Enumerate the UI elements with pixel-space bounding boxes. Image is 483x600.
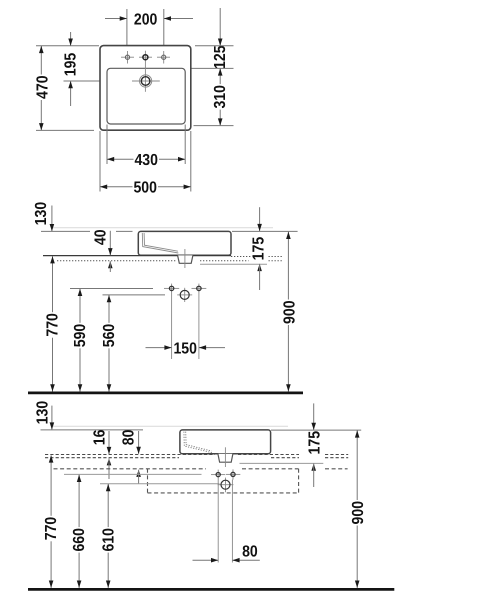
view3 dimension 130 line + arrow	[51, 406, 53, 430]
svg-text:200: 200	[134, 11, 158, 28]
view2 dimension label 770	[44, 312, 59, 338]
view2 dimension 150 leader right + arrow	[199, 347, 225, 349]
view1 dimension 200 leader right + arrow	[164, 18, 193, 20]
svg-text:770: 770	[44, 313, 61, 337]
svg-text:770: 770	[43, 517, 60, 541]
view1 drain hole	[132, 80, 160, 82]
view2 dimension label 560	[101, 323, 116, 349]
view3 counter top dashed line	[45, 454, 215, 456]
view2 floor line	[28, 392, 303, 395]
view2 counter top dotted continuation right	[231, 256, 251, 258]
svg-text:610: 610	[100, 528, 117, 552]
svg-text:470: 470	[34, 75, 51, 99]
view1 dimension 195 upper leader + arrow	[70, 32, 72, 46]
svg-text:310: 310	[212, 85, 229, 109]
svg-text:560: 560	[101, 324, 118, 348]
view3 ground-bottom reference line (175 ref)	[240, 462, 324, 464]
view1 basin outer rim	[100, 46, 191, 131]
view2 extension line rim level left (y=231.4)	[41, 230, 90, 232]
view3 dimension 770 line with arrows	[50, 455, 52, 588]
svg-text:16: 16	[92, 429, 109, 445]
view3 dimension 80 leader right + arrow	[232, 559, 259, 561]
view3 second dashed line 16 below	[45, 457, 179, 459]
view2 ground-bottom reference line (175 ref)	[200, 263, 267, 265]
view3 dimension 80 upper leader + arrow	[138, 431, 140, 454]
view2 dimension 770 line with arrows	[52, 256, 54, 391]
view2 dimension label 590	[72, 323, 87, 349]
view3 recess hidden dashed line	[54, 468, 207, 470]
view3 dimension 610 line with arrows	[107, 484, 109, 588]
svg-text:660: 660	[71, 528, 88, 552]
view1 dimension label 500	[133, 179, 159, 194]
view1 dimension 200 leader left + arrow	[105, 18, 127, 20]
view2 drain boot centreline	[184, 249, 186, 268]
view1 basin inner bowl	[107, 68, 185, 124]
svg-text:80: 80	[242, 544, 258, 561]
view2 drain boot under basin	[178, 255, 193, 263]
view1 extension lines for 500 dim	[99, 131, 101, 192]
view3 dimension 900 line with arrows	[356, 430, 358, 588]
view3 drain outlet circle	[218, 484, 234, 486]
view1 dimension 310 line with arrows	[219, 68, 221, 125]
svg-text:80: 80	[120, 429, 137, 445]
view1 extension line at drain centre (y=81)	[64, 80, 134, 82]
view1 extension line top-left (y=45.7)	[36, 45, 99, 47]
view2 bowl inner profile	[142, 233, 178, 253]
view2 dimension 900 line with arrows	[287, 232, 289, 392]
view1 faucet hole centre (punched)	[139, 56, 152, 58]
view3 extension line 610 level (y=483.7)	[100, 483, 220, 485]
view2 dimension 560 line with arrows	[108, 295, 110, 392]
view1 extension line for 200 dim, right (x=163.8)	[163, 9, 165, 45]
view2 dimension 590 line with arrows	[79, 289, 81, 392]
view2 mounting hole right	[192, 287, 207, 289]
view3 dimension 175 upper leader + arrow	[313, 403, 315, 429]
view2 dimension label 900	[281, 300, 296, 326]
view1 faucet hole left	[121, 56, 134, 58]
view1 dimension 500 line with arrows	[100, 186, 191, 188]
view3 drain boot centreline	[224, 447, 226, 467]
view2 counter underside dotted line	[57, 260, 177, 262]
view2 extension line mounting holes (y=288.5)	[70, 288, 153, 290]
view2 mounting hole left	[164, 287, 179, 289]
view3 dimension label 770	[43, 516, 58, 542]
view3 recess line dashed continuation right	[325, 468, 348, 470]
view3 extension line 660 level (y=474.4)	[64, 473, 202, 475]
view2 extension line rim level right (y=231.4)	[232, 230, 298, 232]
view3 drain boot under basin	[218, 454, 233, 462]
view1 dimension label 470	[34, 75, 49, 101]
view2 dimension 40 upper leader + arrow	[109, 231, 111, 255]
view1 dimension 430 line with arrows	[107, 158, 185, 160]
view3 extension line rim level left (y=429.9)	[41, 429, 144, 431]
svg-text:430: 430	[134, 152, 158, 169]
svg-text:175: 175	[306, 431, 323, 455]
svg-text:40: 40	[92, 229, 109, 245]
view1 faucet hole right	[157, 56, 170, 58]
view3 dimension 16 lower leader + arrow	[107, 458, 112, 465]
view3 dimension 660 line with arrows	[78, 475, 80, 588]
view3 recess dashed box	[148, 492, 299, 494]
view1 extension line for 200 dim, left (x=126.9)	[126, 9, 128, 45]
view3 bowl hidden profile dotted	[184, 432, 212, 453]
view3 extension line rim level right (y=430.1)	[271, 429, 361, 431]
view2 drain outlet circle	[177, 294, 192, 296]
svg-text:500: 500	[133, 180, 157, 197]
svg-text:590: 590	[72, 324, 89, 348]
view2 dimension 130 line + arrow	[51, 206, 53, 232]
view3 extension lines for 80 dim	[217, 480, 219, 563]
svg-text:900: 900	[281, 300, 298, 324]
view3 dimension 175 lower leader + arrow	[311, 464, 316, 471]
svg-text:175: 175	[251, 237, 268, 261]
svg-text:900: 900	[350, 501, 367, 525]
view2 counter top line	[43, 255, 178, 257]
view3 dimension label 660	[71, 527, 86, 553]
view2 faint reference line above basin	[51, 227, 273, 229]
view2 basin body side view	[138, 231, 231, 255]
svg-text:150: 150	[173, 340, 197, 357]
view3 dimension label 900	[350, 500, 365, 526]
view1 extension line top-right (y=45.7)	[195, 45, 234, 47]
view3 dimension 80 leader left + arrow	[193, 559, 219, 561]
view3 dimension 80 lower leader + arrow	[136, 470, 141, 477]
view1 dimension 195 lower leader + arrow	[70, 81, 72, 106]
svg-text:130: 130	[34, 401, 51, 425]
view2 extension line drain height (y=294.9)	[103, 294, 166, 296]
view3 mounting hole left	[211, 474, 225, 476]
view1 dimension 125 upper leader + arrow	[219, 8, 221, 46]
view3 dimension label 610	[100, 527, 115, 553]
view1 dimension 470 line with arrows	[40, 46, 42, 130]
view1 dimension label 200	[133, 11, 159, 26]
view2 dimension 175 upper leader + arrow	[259, 207, 261, 231]
view1 extension line inner-bowl-bottom right (y=125.6)	[194, 125, 234, 127]
view1 extension line bottom-left (y=130.4)	[36, 129, 94, 131]
svg-text:130: 130	[33, 202, 50, 226]
view3 dimension 16 upper leader + arrow	[108, 431, 110, 454]
view1 extension line inner-bowl-top right (y=68.4)	[189, 67, 234, 69]
view3 floor line	[28, 588, 394, 591]
svg-text:195: 195	[63, 53, 80, 77]
view2 dimension 150 leader left + arrow	[146, 347, 172, 349]
view2 dimension 175 lower leader + arrow	[257, 264, 262, 271]
view3 mounting hole right	[226, 473, 240, 475]
view2 dimension 40 lower leader + arrow	[108, 261, 113, 268]
view1 dimension label 430	[134, 152, 160, 167]
view2 dimension label 150	[173, 340, 199, 355]
svg-text:125: 125	[212, 45, 229, 69]
view3 faint reference line above basin	[53, 425, 288, 427]
view1 dimension label 310	[212, 84, 227, 110]
view1 extension lines for 430 dim	[106, 125, 108, 165]
view3 basin body side view	[180, 430, 271, 454]
